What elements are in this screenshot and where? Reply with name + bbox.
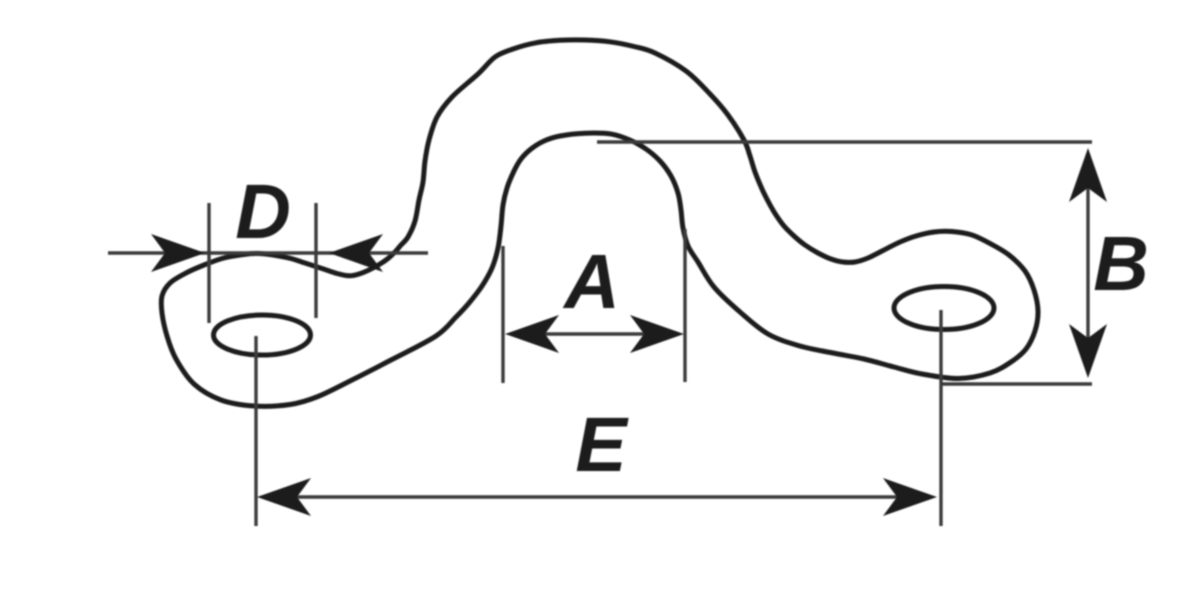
- left hole centerline / E tick: [254, 336, 257, 526]
- svg-text:A: A: [562, 239, 620, 325]
- dimension B bottom extension line: [941, 382, 1092, 385]
- dimension E arrowheads: [257, 478, 311, 516]
- svg-text:B: B: [1093, 221, 1149, 307]
- right mounting hole: [894, 287, 994, 330]
- dimension D lines: [108, 251, 428, 254]
- dimension B arrowheads: [1069, 148, 1107, 202]
- eye strap outline: [161, 40, 1038, 406]
- dimension D arrowheads: [151, 234, 205, 272]
- dimension A extension ticks: [501, 246, 504, 383]
- dimension A line: [540, 332, 650, 335]
- dimension A arrowheads: [505, 315, 559, 353]
- left mounting hole: [214, 315, 311, 355]
- dimension D extension ticks: [207, 203, 210, 323]
- svg-text:D: D: [235, 169, 291, 255]
- dimension B line: [1086, 180, 1089, 345]
- svg-text:E: E: [575, 402, 629, 488]
- right hole centerline / E tick: [939, 310, 942, 526]
- dimension B top extension line: [597, 140, 1092, 143]
- dimension E line: [290, 495, 905, 498]
